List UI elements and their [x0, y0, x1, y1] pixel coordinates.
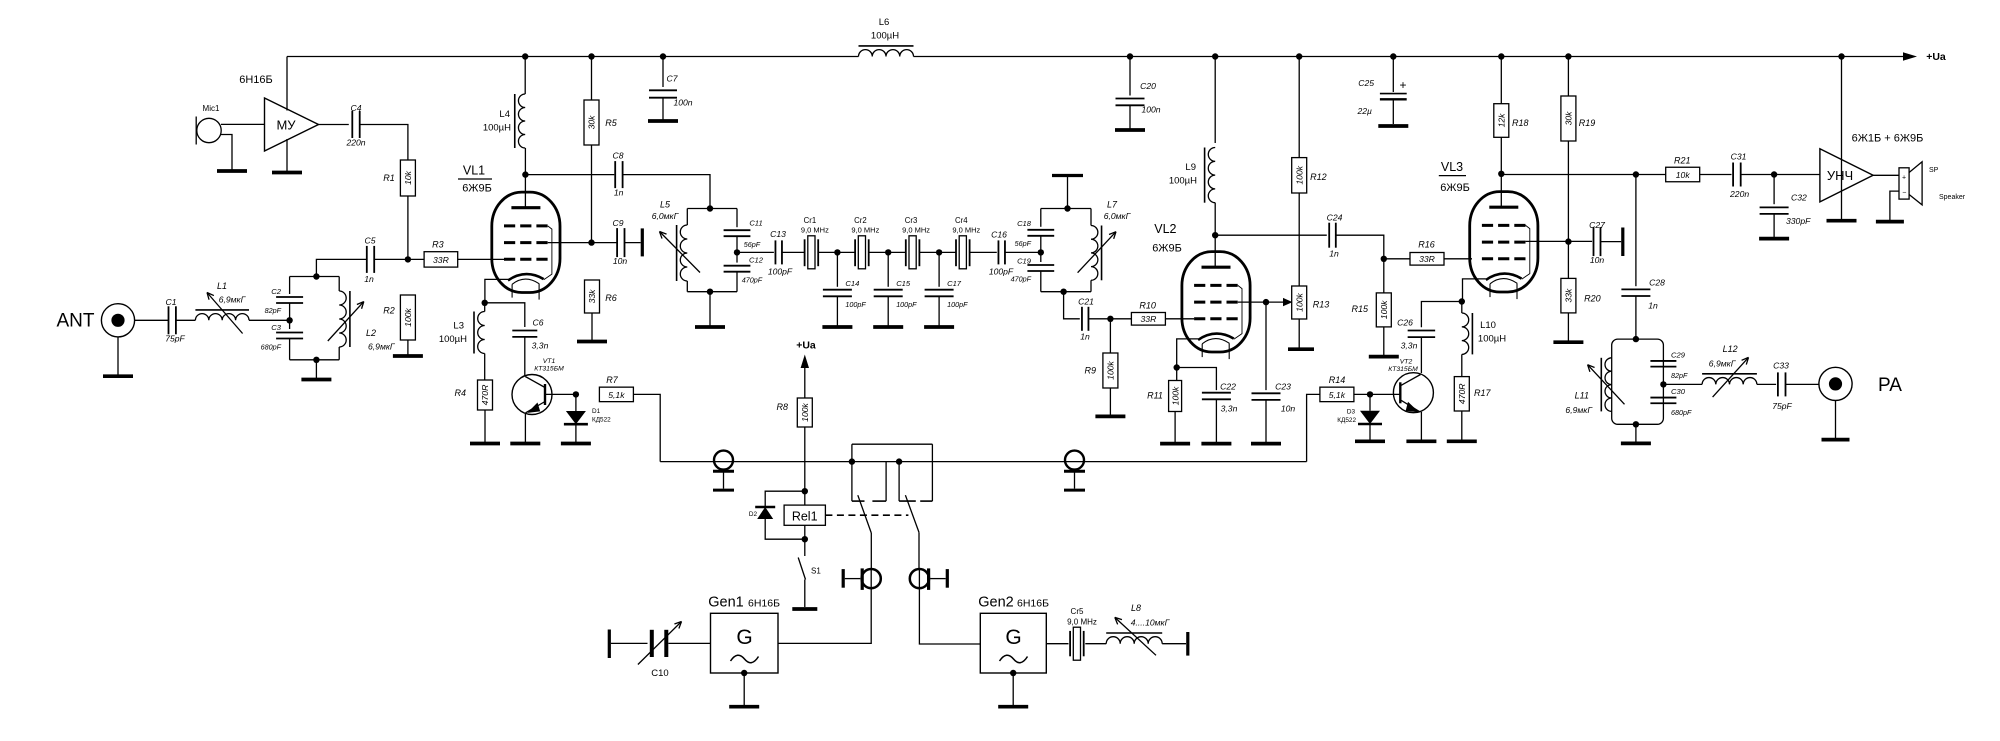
- wire R8 to Rel1 (crosses control line): [804, 427, 806, 491]
- svg-text:1n: 1n: [1080, 332, 1090, 342]
- wire R17 to ground: [1461, 411, 1463, 440]
- wire L8 to terminator: [1162, 643, 1186, 645]
- svg-text:R20: R20: [1584, 294, 1601, 304]
- svg-text:6Ж9Б: 6Ж9Б: [1152, 242, 1182, 254]
- resistor R7: [599, 375, 633, 402]
- wire VT1 emitter to ground: [524, 413, 526, 442]
- svg-text:75pF: 75pF: [1772, 401, 1792, 411]
- svg-text:6Н16Б: 6Н16Б: [239, 74, 273, 86]
- svg-text:680pF: 680pF: [261, 343, 282, 352]
- svg-text:9,0 MHz: 9,0 MHz: [952, 226, 980, 235]
- terminator (C10 left): [608, 630, 611, 659]
- wire R3 to VL1 grid: [458, 258, 504, 260]
- generator Gen1: [708, 595, 780, 674]
- svg-text:C24: C24: [1327, 213, 1343, 223]
- wire C5 left to input tank top: [316, 259, 366, 276]
- transistor VT1 (КТ315БМ): [512, 358, 564, 415]
- resistor R14: [1320, 375, 1354, 402]
- inductor L3: [439, 303, 485, 380]
- svg-text:3,3n: 3,3n: [1221, 404, 1238, 414]
- svg-text:100k: 100k: [1294, 292, 1304, 311]
- svg-text:R15: R15: [1351, 304, 1369, 314]
- svg-text:100pF: 100pF: [768, 267, 793, 277]
- wire MU power to +Ua rail: [286, 57, 288, 111]
- svg-text:33R: 33R: [433, 255, 449, 265]
- svg-text:30k: 30k: [587, 115, 597, 130]
- svg-text:G: G: [1005, 626, 1021, 649]
- svg-text:Rel1: Rel1: [792, 509, 818, 523]
- resistor R6: [585, 280, 617, 313]
- wire C10 to Gen1: [668, 642, 710, 644]
- node VT2 base / D3: [1367, 391, 1373, 397]
- wire VL3 cathode lead: [1463, 279, 1486, 302]
- wire C21 to node: [1089, 318, 1111, 320]
- crystal Cr3 (9,0 MHz): [902, 216, 930, 269]
- node Gen1 ground terminal: [741, 670, 747, 676]
- capacitor C31: [1729, 152, 1749, 200]
- svg-text:100µH: 100µH: [1478, 334, 1506, 345]
- resistor R15: [1351, 259, 1391, 327]
- svg-text:Mic1: Mic1: [203, 104, 220, 113]
- svg-text:33R: 33R: [1141, 314, 1157, 324]
- svg-text:100pF: 100pF: [845, 300, 866, 309]
- wire node to Cr2: [837, 251, 855, 253]
- ground (VT1): [510, 442, 540, 446]
- svg-text:9,0 MHz: 9,0 MHz: [1067, 618, 1097, 627]
- jack on control line (right): [1065, 451, 1084, 470]
- svg-text:R7: R7: [606, 375, 618, 385]
- svg-text:C13: C13: [770, 229, 786, 239]
- svg-text:33k: 33k: [587, 289, 597, 304]
- wire VL2 cathode lead: [1177, 339, 1198, 368]
- wire +Ua top supply rail: [287, 52, 1917, 60]
- microphone Mic1: [196, 104, 221, 145]
- wire cathode node to C6: [485, 303, 525, 327]
- node VL3 anode / AF out: [1498, 171, 1504, 177]
- node Rel1 bottom: [802, 536, 808, 542]
- node C29/C30/L12: [1660, 381, 1666, 387]
- svg-text:+Ua: +Ua: [1926, 51, 1946, 63]
- wire tank bottom to ground: [1635, 424, 1637, 442]
- svg-text:C18: C18: [1017, 219, 1032, 228]
- svg-text:C23: C23: [1275, 382, 1291, 392]
- wire C24 to R16 node: [1336, 235, 1384, 259]
- ground (C25): [1378, 124, 1408, 128]
- wire VL3 screen out: [1526, 240, 1593, 242]
- wire C28 drop: [1635, 175, 1637, 287]
- svg-text:VL1: VL1: [463, 164, 485, 178]
- ground (R9): [1095, 415, 1125, 419]
- svg-text:C20: C20: [1140, 81, 1156, 91]
- wire C18 to node: [1040, 236, 1042, 253]
- resistor R20: [1561, 242, 1601, 313]
- dashed mechanical link Rel1 to contacts: [825, 514, 908, 516]
- label VL3 / 6Ж9Б: [1439, 160, 1470, 194]
- resistor R11: [1147, 368, 1182, 412]
- resistor R9: [1084, 319, 1117, 388]
- svg-text:4....10мкГ: 4....10мкГ: [1131, 618, 1171, 628]
- svg-text:6Ж9Б: 6Ж9Б: [462, 183, 492, 195]
- ground (speaker): [1876, 220, 1904, 224]
- node VT1 base / D1 / R7: [573, 391, 579, 397]
- svg-text:R4: R4: [454, 388, 466, 398]
- wire terminator to C10: [611, 642, 648, 644]
- svg-text:9,0 MHz: 9,0 MHz: [851, 226, 879, 235]
- svg-text:VT2: VT2: [1400, 359, 1413, 366]
- svg-text:Cr5: Cr5: [1071, 607, 1084, 616]
- svg-text:+: +: [1399, 78, 1406, 92]
- inductor L4: [483, 57, 525, 149]
- wire R15 to ground: [1383, 327, 1385, 355]
- node L11 tank bottom: [1633, 421, 1639, 427]
- op-amp MU (microphone amplifier): [265, 98, 319, 151]
- ground (ANT): [103, 374, 133, 378]
- svg-text:SP: SP: [1929, 167, 1939, 174]
- node VL2 anode / L9: [1212, 232, 1218, 238]
- svg-text:C31: C31: [1731, 152, 1747, 162]
- wire R2 to ground: [407, 340, 409, 355]
- svg-text:L7: L7: [1107, 199, 1118, 209]
- svg-text:КД522: КД522: [1337, 417, 1356, 424]
- svg-text:R12: R12: [1310, 172, 1327, 182]
- wire C28 to L11 tank: [1635, 296, 1637, 339]
- wire PA connector to ground: [1835, 401, 1837, 439]
- ground (R17): [1447, 439, 1477, 443]
- wire cathode node to C22: [1177, 368, 1217, 391]
- ground (R13): [1288, 347, 1314, 351]
- generator Gen2: [978, 595, 1049, 674]
- wire Gen2 to ground: [1012, 673, 1014, 705]
- svg-text:C26: C26: [1397, 318, 1413, 328]
- wire Cr3 to node: [919, 251, 939, 253]
- svg-text:1n: 1n: [1329, 249, 1339, 259]
- wire C6 to VT1 collector: [524, 337, 526, 376]
- wire C2 to node: [289, 303, 291, 320]
- svg-text:100k: 100k: [800, 402, 810, 421]
- ground (C23): [1251, 442, 1281, 446]
- ground (PA): [1822, 438, 1850, 442]
- svg-text:6Ж9Б: 6Ж9Б: [1440, 182, 1470, 194]
- node L7 tank top: [1064, 205, 1070, 211]
- svg-text:Cr3: Cr3: [905, 216, 918, 225]
- svg-text:КТ315БМ: КТ315БМ: [534, 366, 564, 373]
- inductor L12 (variable): [1702, 344, 1757, 397]
- wire anode tap to C8: [525, 174, 614, 176]
- ground (VT2): [1406, 439, 1436, 443]
- svg-text:100k: 100k: [1170, 386, 1180, 405]
- tube VL1 (pentode): [492, 192, 560, 300]
- capacitor C25 (electrolytic): [1356, 57, 1406, 125]
- svg-text:L5: L5: [660, 199, 671, 209]
- svg-text:C5: C5: [365, 236, 376, 246]
- svg-text:100pF: 100pF: [947, 300, 968, 309]
- capacitor C33: [1772, 361, 1792, 412]
- label VL2 / 6Ж9Б: [1152, 222, 1182, 254]
- wire Mic1 lower terminal to ground: [220, 135, 232, 170]
- wire R13 to ground: [1298, 319, 1300, 348]
- svg-text:C28: C28: [1649, 278, 1665, 288]
- junction dots on +Ua rail: [522, 53, 1845, 59]
- node input tank top: [313, 273, 319, 279]
- wire C4 to R1: [360, 125, 408, 161]
- wire VT2 base: [1370, 393, 1400, 395]
- node control/contact right: [896, 458, 902, 464]
- svg-text:R3: R3: [432, 239, 444, 249]
- wire Mic1 to MU input: [221, 123, 265, 125]
- svg-text:R9: R9: [1084, 366, 1096, 376]
- svg-text:470pF: 470pF: [1011, 275, 1032, 284]
- node A (R1/R2/C5/R3 junction): [405, 256, 411, 262]
- node Rel1 top: [802, 488, 808, 494]
- ground (S1): [792, 607, 817, 611]
- wire L1 to tank node: [249, 319, 290, 321]
- svg-text:30k: 30k: [1564, 111, 1574, 126]
- ground (R20): [1553, 340, 1583, 344]
- svg-text:100pF: 100pF: [896, 300, 917, 309]
- connector jack B (Gen2 link): [910, 568, 947, 590]
- jack on control line (left): [714, 451, 733, 470]
- svg-text:10n: 10n: [1281, 404, 1296, 414]
- ground (C22): [1201, 442, 1231, 446]
- svg-text:+Ua: +Ua: [796, 340, 816, 352]
- capacitor C1: [165, 297, 185, 343]
- svg-text:C21: C21: [1078, 296, 1094, 306]
- svg-text:470pF: 470pF: [742, 276, 763, 285]
- wire R11 to ground: [1174, 412, 1176, 443]
- node Gen2 ground terminal: [1010, 670, 1016, 676]
- svg-text:ANT: ANT: [57, 311, 95, 332]
- capacitor C9: [592, 218, 628, 266]
- capacitor C6: [512, 318, 548, 351]
- transistor VT2 (КТ315БМ): [1388, 359, 1433, 413]
- svg-text:УНЧ: УНЧ: [1827, 168, 1853, 183]
- ground (Gen2): [998, 705, 1028, 709]
- terminator after C9: [625, 228, 643, 256]
- capacitor C27: [1589, 220, 1606, 265]
- capacitor C8: [613, 151, 624, 198]
- svg-text:КД522: КД522: [592, 417, 611, 424]
- node R15/R16: [1381, 256, 1387, 262]
- svg-text:C1: C1: [166, 297, 177, 307]
- ground (microphone): [217, 169, 247, 173]
- connector jack A (Gen1 link): [843, 568, 881, 590]
- svg-text:R6: R6: [605, 293, 617, 303]
- relay contact arm 2: [905, 495, 919, 570]
- crystal Cr4 (9,0 MHz): [952, 216, 980, 269]
- inductor L11 (variable): [1565, 358, 1624, 415]
- wire L9 / VL2 anode: [1214, 57, 1216, 144]
- wire VL2 screen to R13 wiper: [1238, 298, 1293, 306]
- ground (C7): [648, 119, 678, 123]
- wire Cr1 to node: [818, 251, 837, 253]
- ground (Gen1): [729, 705, 759, 709]
- inductor L2 (variable): [328, 277, 396, 360]
- svg-text:82pF: 82pF: [265, 306, 282, 315]
- wire Cr2 to node: [869, 251, 889, 253]
- node Cr3/Cr4/C17: [936, 249, 942, 255]
- switch S1: [798, 539, 821, 607]
- wire R7 to TX control line: [633, 394, 660, 461]
- ground (D1): [561, 442, 591, 446]
- resistor R17: [1454, 377, 1491, 411]
- svg-text:R21: R21: [1674, 156, 1691, 166]
- wire tank bottom to ground: [709, 292, 711, 326]
- svg-text:C11: C11: [749, 219, 762, 228]
- svg-text:6,9мкГ: 6,9мкГ: [368, 342, 396, 352]
- svg-text:6,9мкГ: 6,9мкГ: [1565, 405, 1593, 415]
- svg-text:C2: C2: [271, 287, 281, 296]
- wire C12 to tank bottom: [736, 272, 738, 292]
- svg-text:L2: L2: [366, 328, 376, 338]
- svg-text:56pF: 56pF: [744, 240, 761, 249]
- svg-text:C14: C14: [845, 279, 859, 288]
- svg-text:C12: C12: [749, 256, 764, 265]
- svg-text:100k: 100k: [1106, 360, 1116, 379]
- wire R4 to ground: [484, 410, 486, 442]
- crystal Cr1 (9,0 MHz): [801, 216, 829, 269]
- svg-text:VT1: VT1: [543, 358, 556, 365]
- ground (R4): [470, 442, 500, 446]
- inductor L6: [859, 17, 914, 57]
- wire node to Cr4: [939, 251, 956, 253]
- svg-text:D1: D1: [592, 408, 601, 415]
- svg-text:330pF: 330pF: [1786, 216, 1811, 226]
- svg-text:R5: R5: [605, 118, 617, 128]
- wire input tank top rail: [290, 276, 340, 278]
- node control/contact left: [849, 458, 855, 464]
- node Cr1/Cr2/C14: [834, 249, 840, 255]
- inductor L1 (variable): [195, 281, 249, 334]
- wire C26 to VT2 collector: [1420, 337, 1422, 373]
- capacitor C2: [265, 277, 303, 316]
- svg-text:R18: R18: [1512, 118, 1529, 128]
- tube VL3 (pentode): [1470, 192, 1538, 300]
- svg-text:470R: 470R: [480, 385, 490, 406]
- inductor L8 (variable): [1106, 603, 1170, 655]
- resistor R3: [408, 239, 458, 267]
- terminator above L7 tank: [1052, 176, 1083, 209]
- capacitor C11: [724, 209, 763, 250]
- svg-text:L9: L9: [1185, 162, 1196, 173]
- svg-text:75pF: 75pF: [165, 334, 185, 344]
- wire L7 tank bottom rail: [1041, 291, 1091, 293]
- resistor R4: [454, 380, 492, 410]
- wire R5 to screen node: [591, 145, 593, 243]
- capacitor C12: [724, 252, 764, 284]
- capacitor C20: [1116, 57, 1161, 129]
- wire tank bottom to C21: [1064, 292, 1080, 319]
- svg-text:10n: 10n: [1590, 255, 1605, 265]
- wire VL1 screen grid to node: [548, 242, 592, 244]
- svg-text:−: −: [1902, 190, 1906, 197]
- svg-text:100n: 100n: [1141, 105, 1160, 115]
- wire tank to L12: [1663, 383, 1702, 385]
- ground (R15): [1369, 355, 1399, 359]
- crystal Cr2 (9,0 MHz): [851, 216, 879, 269]
- capacitor C15: [873, 252, 917, 327]
- wire cathode node to C26: [1421, 302, 1461, 328]
- svg-text:82pF: 82pF: [1671, 371, 1688, 380]
- wire R16 to VL3 grid: [1444, 258, 1472, 260]
- svg-text:C9: C9: [613, 218, 624, 228]
- svg-text:100µH: 100µH: [483, 123, 511, 134]
- wire speaker minus to ground: [1890, 191, 1899, 220]
- svg-text:6,0мкГ: 6,0мкГ: [1104, 211, 1132, 221]
- diode D1 (КД522): [564, 394, 611, 442]
- svg-text:L8: L8: [1131, 603, 1141, 613]
- svg-text:G: G: [736, 626, 752, 649]
- capacitor C24: [1327, 213, 1343, 259]
- wire Cr5 to L8: [1085, 643, 1106, 645]
- capacitor C32: [1760, 175, 1812, 238]
- svg-text:R19: R19: [1579, 118, 1596, 128]
- svg-text:6,9мкГ: 6,9мкГ: [1709, 359, 1737, 369]
- wire C11 to node: [736, 236, 738, 252]
- net +Ua (relay feed): [796, 340, 816, 399]
- ground (UNCH): [1827, 219, 1857, 223]
- svg-text:+: +: [1902, 175, 1906, 182]
- resistor R2: [383, 295, 415, 340]
- svg-text:C27: C27: [1589, 220, 1606, 230]
- wire C3 to tank bottom: [289, 339, 291, 360]
- capacitor C19: [1011, 252, 1055, 283]
- capacitor C5: [364, 236, 375, 285]
- inductor L10: [1462, 302, 1506, 377]
- svg-text:100n: 100n: [673, 98, 692, 108]
- wire VL1 anode lead: [524, 148, 526, 207]
- svg-text:C29: C29: [1671, 350, 1686, 359]
- node VL3 cathode / C26 / L10: [1459, 298, 1465, 304]
- wire C13 to Cr1: [782, 251, 805, 253]
- wire R9 to ground: [1109, 388, 1111, 415]
- svg-text:L1: L1: [217, 281, 227, 291]
- svg-text:L10: L10: [1480, 320, 1496, 331]
- svg-text:5,1k: 5,1k: [1329, 390, 1346, 400]
- ground (C20): [1115, 128, 1145, 132]
- capacitor C18: [1015, 209, 1055, 249]
- svg-text:680pF: 680pF: [1671, 408, 1692, 417]
- resistor R12: [1292, 57, 1327, 194]
- terminator (after L8): [1186, 632, 1189, 656]
- wire MU output: [319, 124, 349, 126]
- svg-text:6,9мкГ: 6,9мкГ: [219, 294, 247, 304]
- wire R21 to C31: [1700, 174, 1732, 176]
- ground (R6): [577, 340, 607, 344]
- inductor L9: [1169, 148, 1215, 236]
- svg-text:L12: L12: [1723, 344, 1738, 354]
- wire R18 to anode node: [1500, 137, 1502, 174]
- svg-text:9,0 MHz: 9,0 MHz: [902, 226, 930, 235]
- svg-text:R14: R14: [1329, 375, 1346, 385]
- wire Gen1 to ground: [743, 673, 745, 705]
- wire L11 tank loop: [1612, 339, 1664, 424]
- wire R6 to ground: [591, 313, 593, 340]
- node C2/C3 midpoint: [286, 317, 292, 323]
- wire Cr4 to C16: [970, 251, 997, 253]
- node VL2 cathode junction: [1174, 364, 1180, 370]
- wire R12 to R13 (crosses anode wire): [1298, 193, 1300, 286]
- node L7 tank bottom: [1060, 289, 1066, 295]
- svg-text:C15: C15: [896, 279, 911, 288]
- svg-text:Cr1: Cr1: [804, 216, 817, 225]
- capacitor C22: [1202, 382, 1238, 443]
- node C21/R9/R10: [1107, 316, 1113, 322]
- wire anode node to C28/R21: [1501, 174, 1636, 176]
- svg-text:R17: R17: [1474, 388, 1492, 398]
- svg-text:C17: C17: [947, 279, 962, 288]
- svg-text:1n: 1n: [1648, 301, 1658, 311]
- svg-text:33R: 33R: [1419, 254, 1435, 264]
